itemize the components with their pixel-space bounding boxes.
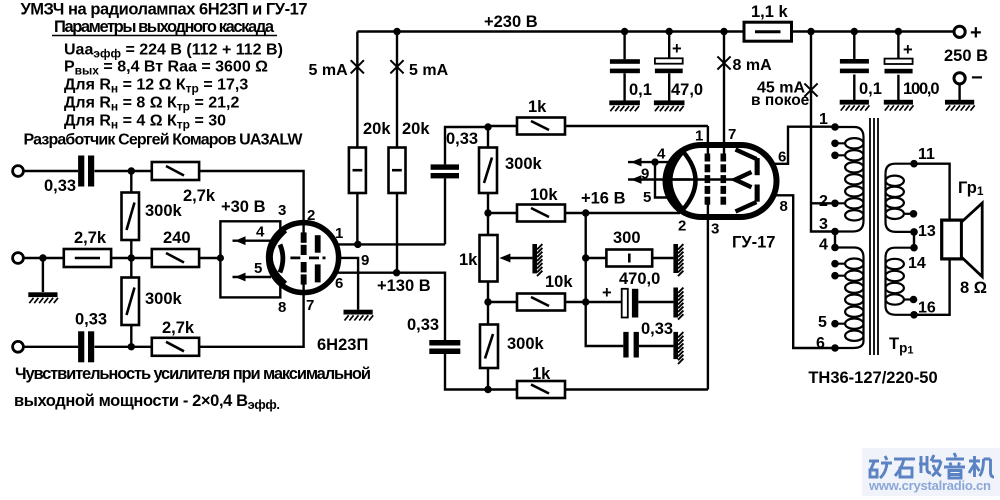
svg-text:Параметры выходного каскада: Параметры выходного каскада: [54, 18, 275, 36]
svg-text:−: −: [971, 67, 983, 89]
wire cap 100,0 C8: [897, 32, 899, 101]
secondary tap dot on winding D: [910, 296, 918, 304]
resistor R17 1,1k: [744, 22, 792, 41]
wire 20k R8 bottom to pin6 row: [396, 193, 398, 273]
GU-17 cathode crescent: [670, 152, 695, 210]
measuring cross 5mA left: [351, 60, 364, 73]
svg-text:10k: 10k: [530, 186, 558, 204]
junction R3/R4 node: [128, 254, 135, 261]
wire 300k R13 to bottom node: [487, 368, 489, 390]
junction input2 ground: [39, 254, 46, 261]
wire tap2 stub: [811, 202, 835, 204]
svg-text:Для Rн = 4 Ω Ктр = 30: Для Rн = 4 Ω Ктр = 30: [64, 113, 226, 132]
transformer tap 5 dot: [831, 320, 839, 328]
junction input3/R6/R5: [128, 343, 135, 350]
hatched ground for C9: [673, 288, 683, 320]
hatched ground for pot wiper: [532, 244, 542, 276]
wire C1 to resistor R1: [95, 170, 152, 172]
output terminal minus: [954, 73, 965, 84]
resistor R7 20k: [349, 148, 366, 194]
svg-text:+230 В: +230 В: [484, 13, 538, 31]
secondary winding D entry terminal 14: [886, 248, 915, 258]
primary winding A entry tap1: [835, 127, 864, 137]
svg-text:9: 9: [641, 166, 649, 183]
svg-text:250 В: 250 В: [944, 47, 988, 65]
secondary terminal 16 dot: [910, 311, 918, 319]
capacitor C4 0,33 coupling bottom: [429, 340, 460, 354]
junction rail / screen feed: [720, 28, 727, 35]
junction bias bus / 300 row: [582, 254, 589, 261]
svg-text:300k: 300k: [505, 155, 543, 173]
wire C3 bottom to pin1 row: [444, 178, 446, 244]
svg-text:300k: 300k: [145, 202, 183, 220]
resistor R15 1k: [517, 381, 565, 398]
transformer tap 1 dot: [831, 123, 839, 131]
primary winding B exit to tap6: [835, 341, 864, 348]
junction 1k2 row bottom: [484, 386, 491, 393]
primary winding A exit to tap3: [835, 221, 864, 232]
resistor R10 1k: [517, 118, 565, 135]
junction 10k row / pot top: [484, 209, 491, 216]
wire 300 R16 right to ground: [652, 257, 673, 259]
node dot on box: [217, 254, 224, 261]
svg-text:в покое: в покое: [751, 92, 810, 109]
watermark CJK glyphs (drawn strokes): [869, 453, 994, 478]
wire bias bus x585.7: [586, 213, 624, 346]
wire 1k R10 row right to GU-17 pin1: [565, 125, 708, 127]
svg-text:0,33: 0,33: [446, 130, 478, 148]
wire pot R11 to node: [487, 282, 489, 325]
transformer core: [870, 118, 878, 355]
pot R11 wiper arrow to ground: [499, 254, 532, 263]
svg-text:5 mA: 5 mA: [309, 62, 349, 79]
svg-text:11: 11: [918, 146, 935, 163]
secondary winding C left spine: [884, 174, 886, 222]
GU-17 beam plate bottom: [736, 202, 757, 212]
svg-text:6: 6: [335, 275, 343, 292]
speaker Gr1 box: [942, 220, 962, 259]
wire input3 to cap C2: [25, 346, 79, 348]
wire 300k Rb to node3: [130, 325, 132, 347]
primary winding B tap dot b: [831, 272, 839, 280]
wire 10k R14 row right: [565, 301, 586, 303]
svg-text:4: 4: [819, 237, 828, 254]
measuring cross 45mA: [804, 83, 817, 96]
svg-text:6: 6: [816, 335, 825, 352]
secondary terminal 13 dot: [910, 228, 918, 236]
wire R3 to node2: [111, 257, 152, 259]
wire GU-17 pin7 screen riser with 8mA: [723, 32, 725, 161]
wire 10k R12 row left: [488, 212, 517, 214]
junction dot GU-17 heater: [651, 158, 658, 165]
svg-text:+: +: [903, 41, 913, 59]
svg-text:7: 7: [306, 297, 314, 314]
svg-text:5 mA: 5 mA: [409, 62, 449, 79]
resistor R6 2,7k: [152, 338, 199, 356]
svg-text:8: 8: [278, 299, 286, 316]
transformer tap 2 dot: [831, 200, 839, 208]
6N23P anode bar lower: [315, 264, 321, 282]
transformer tap 4 dot: [831, 244, 839, 252]
ground at input 2: [28, 292, 58, 303]
speaker Gr1 horn: [962, 203, 983, 277]
ground for C6: [654, 100, 685, 111]
wire 20k R7 bottom to pin1 row: [356, 193, 358, 244]
secondary terminal 11 dot: [910, 160, 918, 168]
hatched ground for C10: [673, 332, 683, 364]
capacitor C10 0,33: [623, 332, 639, 358]
hatched ground for R16: [673, 244, 683, 276]
svg-text:6Н23П: 6Н23П: [317, 336, 368, 354]
wire R1 to 6N23P grid1 (pin 2 riser): [199, 171, 304, 231]
wire C2 to resistor R6: [95, 346, 152, 348]
svg-text:ТН36-127/220-50: ТН36-127/220-50: [808, 369, 937, 387]
GU-17 heater arrow pin 4: [628, 158, 672, 198]
wire cap 0,1 C5: [623, 32, 625, 101]
resistor R12 10k: [517, 205, 565, 222]
wire input1 to cap C1: [25, 170, 79, 172]
resistor R5 300k: [122, 278, 140, 326]
svg-text:ГУ-17: ГУ-17: [732, 234, 775, 252]
svg-text:+130 В: +130 В: [377, 277, 431, 295]
wire R6 to 6N23P grid2 (pin 7 riser): [199, 286, 304, 347]
svg-text:470,0: 470,0: [619, 270, 660, 288]
junction 1k row / 300k R9: [484, 123, 491, 130]
capacitor C9 470,0 electrolytic: [622, 289, 639, 318]
ground for C8: [884, 100, 914, 111]
resistor R4 240: [152, 249, 199, 267]
wire input2 to R3: [25, 257, 64, 259]
wire cap 47,0 C6: [668, 32, 670, 101]
svg-text:1: 1: [819, 111, 828, 128]
junction +130V node: [393, 269, 400, 276]
wire +230V rail left section: [357, 30, 744, 32]
potentiometer R11 1k: [480, 235, 498, 282]
svg-text:1k: 1k: [459, 251, 478, 269]
wire 20k R7 top feed: [356, 32, 358, 148]
wire 45mA B+ drop to tap3: [811, 32, 835, 232]
junction +16V node: [582, 209, 589, 216]
secondary winding C exit to 13: [886, 222, 915, 232]
wire R9 to pot R11: [487, 193, 489, 235]
wire GU-17 pin1 riser: [707, 126, 709, 160]
svg-text:240: 240: [163, 229, 191, 247]
capacitor C3 0,33 coupling top: [431, 164, 459, 178]
svg-text:4: 4: [256, 224, 265, 241]
svg-text:3: 3: [819, 216, 828, 233]
secondary winding C petals: [886, 176, 904, 219]
capacitor C5 0,1: [610, 59, 640, 73]
svg-text:+16 В: +16 В: [581, 190, 626, 208]
svg-text:100,0: 100,0: [903, 80, 940, 98]
junction rail / C5: [621, 28, 628, 35]
resistor R14 10k: [517, 294, 565, 311]
svg-text:+: +: [602, 284, 612, 302]
svg-text:47,0: 47,0: [671, 81, 703, 99]
6N23P shield dashes pin 9: [290, 256, 325, 259]
input terminal 3: [13, 341, 24, 352]
svg-text:300: 300: [613, 229, 641, 247]
wire 10k R12 row right to GU-17 pin2: [565, 207, 679, 213]
primary winding B tap dot a: [831, 260, 839, 268]
capacitor C1 0,33: [78, 156, 94, 187]
svg-text:20k: 20k: [363, 120, 391, 138]
GU-17 cathode chevron: [735, 172, 751, 187]
wire 240 to +30V box node: [199, 257, 220, 259]
wire C4 bottom to 1k bottom row: [445, 354, 488, 390]
input terminal 1: [13, 166, 24, 177]
secondary terminal 14 dot: [910, 244, 918, 252]
wire 1k R10 row left: [488, 125, 517, 127]
svg-text:16: 16: [918, 300, 936, 317]
wire 6N23P pin6 anode row to +130V: [321, 273, 445, 340]
secondary tap dot on winding C: [910, 210, 918, 218]
junction rail / anode feed: [807, 28, 814, 35]
junction rail / C8: [895, 28, 902, 35]
svg-text:0,33: 0,33: [75, 311, 107, 329]
svg-text:+: +: [672, 40, 682, 58]
tube U1 6N23P envelope: [269, 223, 339, 293]
6N23P anode bar upper: [315, 235, 321, 253]
svg-text:3: 3: [278, 202, 286, 219]
measuring cross 5mA right: [390, 60, 403, 73]
secondary winding D left spine: [884, 258, 886, 306]
primary winding B entry tap4: [835, 248, 864, 258]
svg-text:9: 9: [361, 252, 369, 269]
wire 6N23P pin9 shield to ground: [324, 258, 358, 310]
svg-text:8: 8: [780, 198, 788, 215]
svg-text:0,33: 0,33: [407, 316, 439, 334]
svg-text:Для Rн = 12 Ω Ктр = 17,3: Для Rн = 12 Ω Ктр = 17,3: [64, 77, 248, 96]
svg-text:5: 5: [818, 314, 827, 331]
svg-text:2: 2: [678, 218, 686, 235]
svg-text:10k: 10k: [545, 273, 573, 291]
svg-text:1: 1: [335, 225, 343, 242]
GU-17 beam plate top: [736, 150, 757, 160]
capacitor C8 100,0 electrolytic: [885, 59, 913, 74]
svg-text:Чувствительность усилителя при: Чувствительность усилителя при максималь…: [15, 365, 371, 383]
svg-text:8 Ω: 8 Ω: [960, 279, 987, 297]
6N23P grid pin stubs inside envelope: [302, 224, 304, 292]
capacitor C2 0,33: [78, 331, 94, 362]
6N23P grid bar (vertical dashes): [301, 232, 307, 284]
svg-text:1: 1: [695, 128, 703, 145]
tube U2 GU-17 envelope: [666, 145, 777, 217]
secondary winding D exit to 16: [886, 306, 915, 315]
wire 0,33 C10 right to ground: [639, 345, 674, 347]
svg-text:1,1 k: 1,1 k: [751, 3, 789, 21]
svg-text:выходной мощности - 2×0,4 Вэфф: выходной мощности - 2×0,4 Вэфф.: [14, 392, 280, 412]
wire +230V rail right section: [792, 30, 955, 32]
measuring cross 8mA: [717, 56, 730, 69]
svg-text:2,7k: 2,7k: [162, 319, 195, 337]
resistor R9 300k: [479, 148, 497, 194]
svg-text:Разработчик Сергей Комаров UA3: Разработчик Сергей Комаров UA3ALW: [24, 132, 304, 149]
wire sec 16 to speaker: [914, 260, 950, 315]
svg-text:0,33: 0,33: [44, 177, 76, 195]
svg-text:5: 5: [254, 260, 262, 277]
svg-text:2: 2: [307, 207, 315, 224]
svg-text:14: 14: [908, 255, 926, 272]
svg-text:Для Rн = 8 Ω Ктр = 21,2: Для Rн = 8 Ω Ктр = 21,2: [64, 95, 239, 114]
transformer tap 6 dot: [831, 344, 839, 352]
svg-text:5: 5: [643, 189, 651, 206]
GU-17 cathode mid line: [665, 178, 735, 181]
wire coupling cap C3 top to 1k row: [445, 127, 488, 164]
svg-text:13: 13: [918, 223, 936, 240]
junction 10k2 row / 300k R13: [484, 298, 491, 305]
wire tap3-tap4 link: [834, 232, 836, 248]
svg-text:+30 В: +30 В: [221, 198, 266, 216]
primary winding B petals: [845, 259, 863, 341]
wire GU-17 pin6 anode to transformer tap1: [760, 127, 835, 164]
svg-text:2,7k: 2,7k: [183, 187, 216, 205]
ground for pin 9 shield: [344, 310, 374, 321]
heater arrow pin 4 of 6N23P: [233, 236, 272, 245]
resistor R1 2,7k: [152, 162, 199, 180]
primary winding A tap dot b: [831, 152, 839, 160]
svg-text:0,1: 0,1: [859, 80, 882, 98]
output terminal plus: [954, 26, 965, 37]
svg-text:300k: 300k: [145, 290, 183, 308]
wire GU-17 pin8 anode to transformer tap6: [760, 195, 835, 348]
wire 10k R14 row left: [488, 301, 517, 303]
capacitor C6 47,0 electrolytic: [655, 58, 683, 73]
wire node x488 to 300k R9: [487, 127, 489, 148]
secondary winding D petals: [886, 259, 904, 305]
GU-17 anode bar upper: [755, 158, 760, 175]
svg-text:4: 4: [657, 146, 666, 163]
ground for minus terminal: [945, 100, 975, 111]
svg-text:+: +: [970, 22, 982, 44]
wire 1k R15 row left: [488, 388, 517, 390]
wire 1k R15 row right to GU-17 pin3: [565, 388, 708, 390]
svg-text:300k: 300k: [507, 335, 545, 353]
primary winding A petals: [845, 138, 863, 220]
wire sec 11 to speaker: [914, 164, 950, 220]
resistor R2 300k: [122, 193, 140, 241]
6N23P cathode crescent: [271, 231, 286, 284]
wire 470uF right to ground: [638, 301, 673, 303]
input terminal 2: [13, 253, 24, 264]
svg-text:1k: 1k: [532, 365, 551, 383]
junction rail / C6: [666, 28, 673, 35]
GU-17 anode bar lower: [755, 185, 760, 202]
wire 300 R16 left: [586, 257, 607, 259]
junction input1/R1/R2: [128, 167, 135, 174]
GU-17 grid2 bar dashes: [721, 154, 727, 205]
GU-17 grid pin stubs inside envelope: [708, 147, 724, 216]
secondary winding C entry terminal 11: [886, 164, 915, 174]
heater arrow pin 5 of 6N23P: [233, 273, 272, 282]
+30V heater supply box: [220, 221, 280, 297]
capacitor C7 0,1: [840, 59, 869, 73]
transformer tap 3 dot: [831, 228, 839, 236]
wire 20k R8 top feed: [396, 32, 398, 148]
wire 6N23P pin1 anode row: [321, 243, 445, 245]
wire cap 0,1 C7: [853, 32, 855, 101]
resistor R3 2,7k: [64, 249, 111, 267]
svg-text:УМЗЧ на радиолампах 6Н23П и ГУ: УМЗЧ на радиолампах 6Н23П и ГУ-17: [21, 1, 308, 19]
junction bias bus / 470uF row: [582, 298, 589, 305]
svg-text:3: 3: [711, 221, 719, 238]
svg-text:2,7k: 2,7k: [74, 229, 107, 247]
primary winding A tap dot a: [831, 140, 839, 148]
wire node2 to 300k Rb: [130, 258, 132, 278]
svg-text:8 mA: 8 mA: [733, 57, 773, 74]
svg-text:6: 6: [778, 149, 786, 166]
resistor R16 300: [606, 250, 652, 267]
wire sec 13-14 link: [913, 232, 915, 248]
ground for C5: [609, 100, 640, 111]
watermark background: [862, 448, 1000, 496]
wire 300k Ra to node2: [130, 240, 132, 258]
primary winding B right spine: [862, 258, 864, 342]
svg-text:2: 2: [819, 193, 828, 210]
wire minus terminal to ground: [958, 84, 960, 100]
svg-text:7: 7: [728, 126, 736, 143]
wire GU-17 pin3 cathode drop: [707, 202, 709, 390]
svg-text:1k: 1k: [528, 98, 547, 116]
svg-text:0,1: 0,1: [629, 81, 652, 99]
svg-text:20k: 20k: [402, 120, 430, 138]
junction rail / C7: [851, 28, 858, 35]
svg-text:0,33: 0,33: [641, 320, 673, 338]
ground for C7: [840, 100, 870, 111]
GU-17 heater arrow pin 9: [628, 175, 690, 184]
wire node1 to 300k Ra: [130, 171, 132, 193]
wire 470uF left: [586, 301, 622, 303]
junction rail / 20k R8: [393, 28, 400, 35]
svg-text:www.crystalradio.cn: www.crystalradio.cn: [868, 478, 991, 493]
GU-17 grid1 bar dashes: [705, 154, 711, 205]
wire input2 ground stub: [42, 258, 44, 292]
primary winding A right spine: [862, 137, 864, 221]
junction pin1 row / 20k R7: [354, 241, 361, 248]
resistor R13 300k: [480, 325, 498, 369]
resistor R8 20k: [389, 148, 406, 194]
